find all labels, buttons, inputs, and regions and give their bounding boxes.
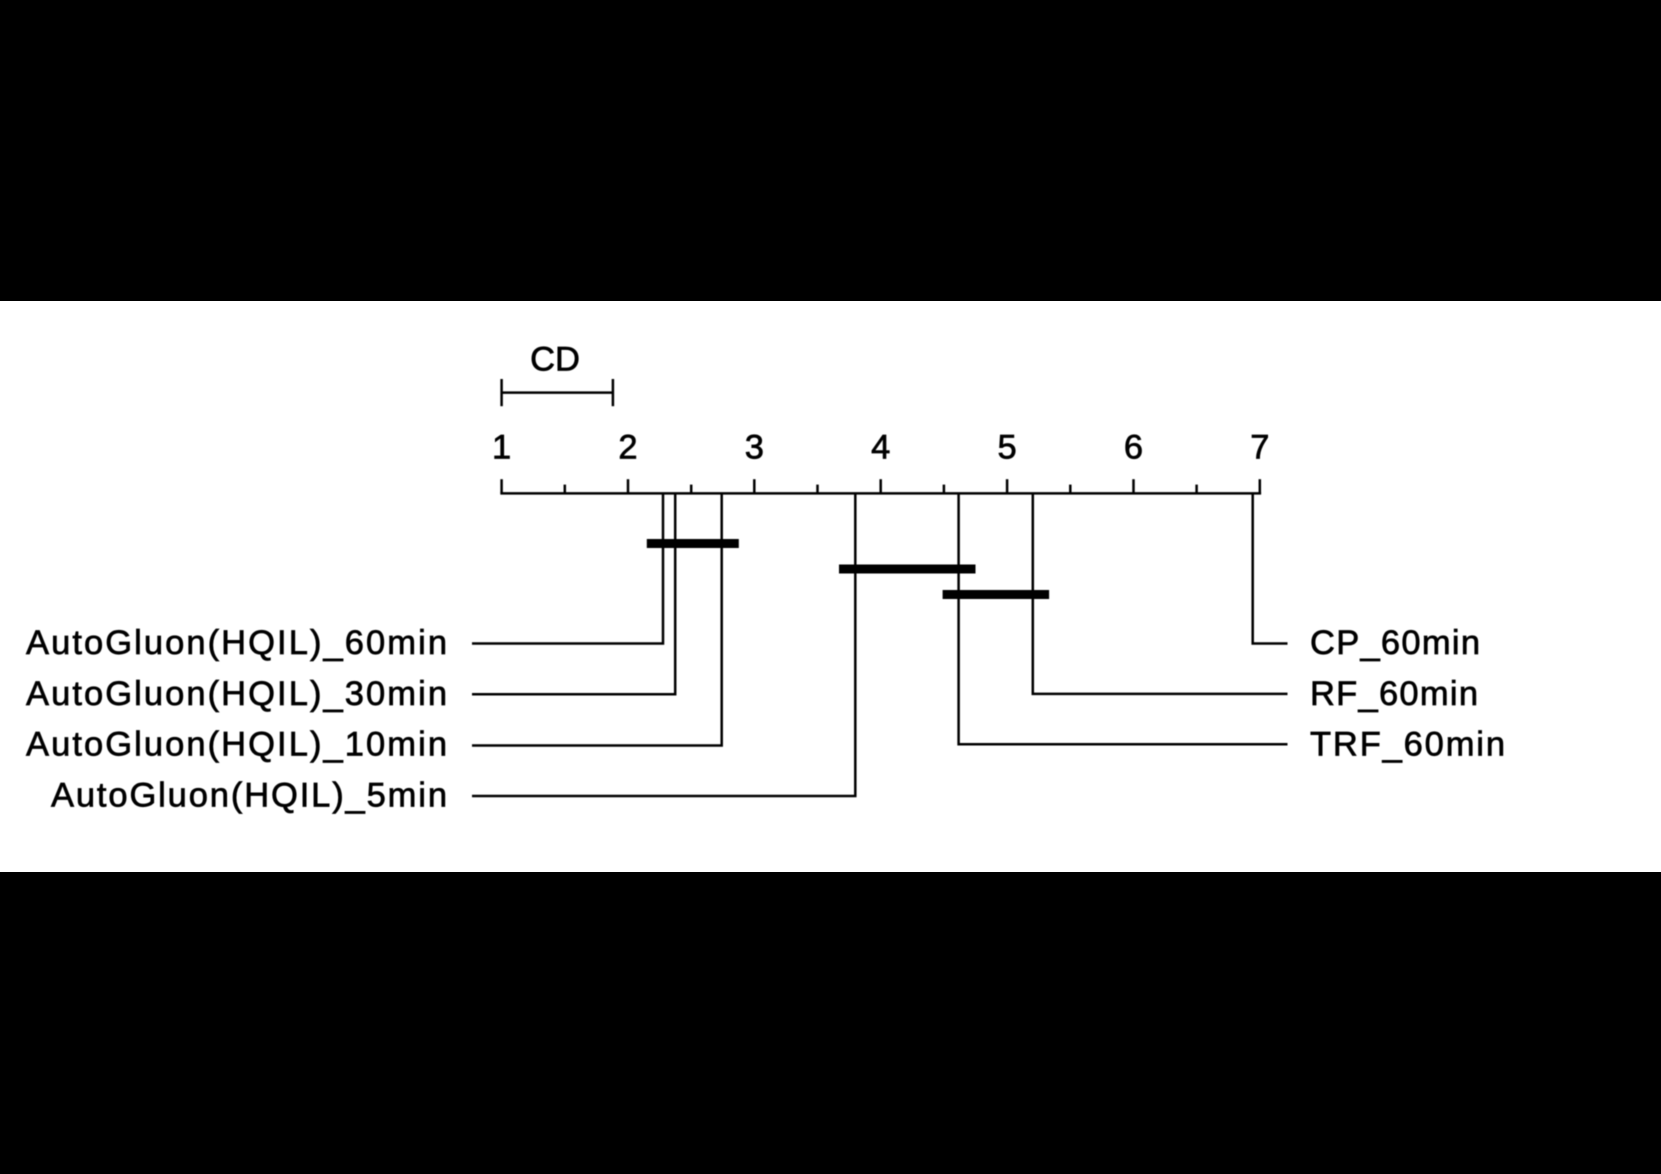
clique bar 2 — [839, 565, 976, 574]
svg-text:AutoGluon(HQIL)_10min: AutoGluon(HQIL)_10min — [26, 726, 447, 764]
wire AutoGluon(HQIL)_5min — [472, 493, 855, 796]
CD left cap — [500, 379, 503, 406]
svg-text:CP_60min: CP_60min — [1310, 624, 1480, 662]
wire TRF_60min — [959, 493, 1288, 744]
svg-text:AutoGluon(HQIL)_30min: AutoGluon(HQIL)_30min — [26, 675, 447, 713]
tick 3 — [753, 479, 756, 493]
tick 1.5 — [564, 485, 567, 494]
wire AutoGluon(HQIL)_10min — [472, 493, 722, 745]
svg-text:RF_60min: RF_60min — [1310, 675, 1478, 713]
bottom black band — [0, 872, 1661, 1174]
svg-text:TRF_60min: TRF_60min — [1310, 726, 1505, 764]
svg-text:AutoGluon(HQIL)_5min: AutoGluon(HQIL)_5min — [51, 776, 447, 814]
top black band — [0, 0, 1661, 301]
svg-text:CD: CD — [530, 341, 580, 379]
clique bar 3 — [943, 590, 1050, 599]
tick 5.5 — [1069, 485, 1072, 494]
tick 2 — [627, 479, 630, 493]
svg-text:7: 7 — [1250, 429, 1269, 467]
svg-text:1: 1 — [492, 429, 511, 467]
svg-text:6: 6 — [1124, 429, 1143, 467]
svg-text:4: 4 — [871, 429, 890, 467]
tick 6 — [1132, 479, 1135, 493]
tick 7 — [1259, 479, 1262, 493]
svg-text:3: 3 — [745, 429, 764, 467]
svg-text:AutoGluon(HQIL)_60min: AutoGluon(HQIL)_60min — [26, 624, 447, 662]
wire AutoGluon(HQIL)_30min — [472, 493, 675, 694]
axis line — [500, 492, 1261, 495]
wire RF_60min — [1033, 493, 1288, 694]
tick 4.5 — [943, 485, 946, 494]
wire CP_60min — [1253, 493, 1288, 643]
tick 3.5 — [816, 485, 819, 494]
clique bar 1 — [647, 539, 739, 548]
CD right cap — [612, 379, 615, 406]
tick 1 — [500, 479, 503, 493]
wire AutoGluon(HQIL)_60min — [472, 493, 663, 643]
tick 5 — [1006, 479, 1009, 493]
svg-text:2: 2 — [618, 429, 637, 467]
CD interval bar — [502, 391, 613, 394]
svg-text:5: 5 — [998, 429, 1017, 467]
tick 4 — [879, 479, 882, 493]
tick 2.5 — [690, 485, 693, 494]
tick 6.5 — [1195, 485, 1198, 494]
